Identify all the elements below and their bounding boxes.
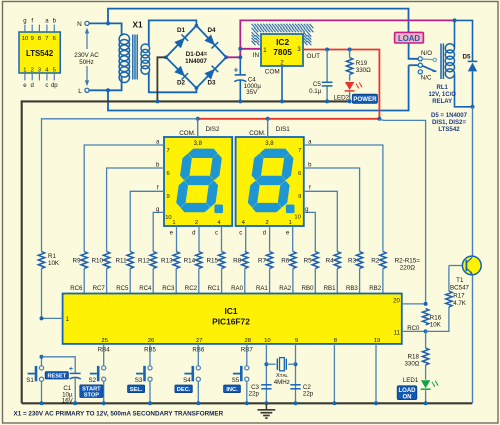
svg-text:D3: D3 bbox=[207, 79, 216, 86]
diode D4 bbox=[204, 35, 215, 46]
svg-text:R15: R15 bbox=[206, 258, 218, 265]
svg-text:L: L bbox=[78, 88, 82, 95]
svg-text:28: 28 bbox=[245, 338, 252, 344]
wire D5 to T1 collector bbox=[472, 107, 474, 256]
capacitor C5 bbox=[326, 50, 328, 82]
bridge rectifier frame bbox=[166, 26, 226, 88]
wire 5V output red bbox=[198, 50, 380, 119]
svg-text:R4: R4 bbox=[326, 258, 335, 265]
wire AC line L to relay pole bbox=[108, 65, 409, 110]
wire R14 to IC1 pin 13 (RC2) bbox=[198, 269, 200, 294]
wire R8 to IC1 pin 2 (RA0) bbox=[244, 269, 246, 294]
svg-text:7: 7 bbox=[167, 148, 170, 154]
svg-text:IN: IN bbox=[253, 52, 260, 59]
svg-text:RB2: RB2 bbox=[369, 285, 381, 292]
svg-text:RC3: RC3 bbox=[162, 285, 175, 292]
wire R5 to IC1 pin 21 (RB0) bbox=[314, 269, 316, 294]
diode D5 bbox=[468, 60, 478, 62]
resistor R8 220ohm bbox=[242, 252, 248, 269]
svg-text:RL1: RL1 bbox=[437, 85, 449, 91]
svg-text:22p: 22p bbox=[303, 391, 314, 398]
svg-text:DIS1: DIS1 bbox=[276, 126, 290, 133]
svg-text:RA2: RA2 bbox=[279, 285, 291, 292]
svg-text:SEL.: SEL. bbox=[130, 387, 143, 393]
wires DIS2 pins e d c to resistors bbox=[176, 226, 178, 252]
svg-text:dp: dp bbox=[51, 83, 58, 89]
svg-text:6: 6 bbox=[53, 36, 56, 42]
transformer X1 secondary winding bbox=[141, 44, 150, 53]
capacitor C1 10u bbox=[42, 357, 76, 373]
resistor R19 330ohm bbox=[349, 50, 351, 58]
svg-text:12V, 1C/O: 12V, 1C/O bbox=[428, 92, 456, 98]
IC1 pin 1 MCLR wire bbox=[42, 317, 63, 319]
switch S3 select bbox=[149, 365, 151, 367]
display DIS2 decimal point bbox=[214, 205, 223, 214]
display DIS2 digit 8 bbox=[176, 149, 223, 212]
svg-text:RB1: RB1 bbox=[324, 285, 336, 292]
wire R6 to IC1 pin 4 (RA2) bbox=[292, 269, 294, 294]
svg-text:1: 1 bbox=[172, 220, 175, 226]
wire R3 to IC1 pin 24 (RB3) bbox=[359, 269, 361, 294]
diode D2 bbox=[174, 66, 185, 77]
svg-text:2: 2 bbox=[195, 220, 198, 226]
wire 12V to IC2 input bbox=[240, 48, 261, 50]
svg-text:RB0: RB0 bbox=[302, 285, 314, 292]
svg-text:BC547: BC547 bbox=[450, 285, 469, 292]
relay contact N/O bbox=[418, 57, 422, 61]
svg-text:STOP: STOP bbox=[84, 393, 100, 399]
svg-text:S2: S2 bbox=[89, 377, 97, 384]
svg-text:R7: R7 bbox=[258, 258, 267, 265]
svg-text:INC.: INC. bbox=[226, 387, 238, 393]
svg-text:DEC.: DEC. bbox=[177, 387, 191, 393]
svg-text:RA1: RA1 bbox=[256, 285, 268, 292]
wire IC2 COM to ground bbox=[281, 66, 283, 101]
wire R9 to IC1 pin 17 (RC6) bbox=[83, 269, 85, 294]
svg-text:10: 10 bbox=[294, 215, 300, 221]
svg-text:4.7K: 4.7K bbox=[453, 300, 467, 307]
resistor R9 220ohm bbox=[81, 252, 87, 269]
label INC box bbox=[224, 385, 241, 393]
switch S4 decrement bbox=[197, 365, 199, 367]
svg-text:LOAD: LOAD bbox=[399, 388, 417, 394]
svg-text:T1: T1 bbox=[456, 277, 464, 284]
svg-text:RB3: RB3 bbox=[346, 285, 358, 292]
wire 12V to D5 cathode bbox=[455, 20, 473, 61]
svg-text:2: 2 bbox=[31, 67, 34, 73]
svg-text:LTS542: LTS542 bbox=[438, 126, 460, 133]
svg-text:10: 10 bbox=[22, 36, 28, 42]
transformer X1 core bbox=[132, 35, 134, 80]
switch S2 start/stop bbox=[103, 365, 105, 367]
svg-text:S5: S5 bbox=[232, 377, 240, 384]
svg-text:R13: R13 bbox=[161, 258, 173, 265]
svg-text:8: 8 bbox=[38, 36, 41, 42]
230V arrow bbox=[86, 32, 88, 50]
svg-text:7805: 7805 bbox=[273, 47, 292, 57]
svg-text:330Ω: 330Ω bbox=[404, 361, 419, 368]
wires DIS1 pins c d e to resistors bbox=[245, 226, 247, 252]
svg-text:LOAD: LOAD bbox=[398, 34, 420, 43]
diode D3 bbox=[204, 69, 215, 80]
svg-text:c: c bbox=[239, 231, 242, 237]
resistor R13 220ohm bbox=[173, 252, 179, 269]
terminal L bbox=[85, 88, 89, 92]
svg-text:S4: S4 bbox=[183, 377, 191, 384]
node 5V junctions bbox=[325, 48, 329, 52]
label POWER box bbox=[352, 94, 377, 103]
wire R11 to IC1 pin 16 (RC5) bbox=[129, 269, 131, 294]
LTS542 bottom pin leads 1 2 3 4 5 (e d c dp) bbox=[24, 73, 26, 80]
ground rail left side bbox=[21, 100, 23, 403]
diode D1 bbox=[174, 38, 185, 49]
regulator IC2 7805 bbox=[261, 34, 303, 66]
svg-text:RC4: RC4 bbox=[139, 285, 152, 292]
svg-text:DIS1, DIS2=: DIS1, DIS2= bbox=[432, 119, 466, 126]
wire R12 to IC1 pin 15 (RC4) bbox=[152, 269, 154, 294]
resistor R1 10K bbox=[38, 252, 44, 269]
transistor Q1 BC547 bbox=[449, 265, 462, 267]
label DEC box bbox=[175, 385, 192, 393]
svg-text:220Ω: 220Ω bbox=[400, 265, 416, 272]
svg-text:22p: 22p bbox=[249, 391, 260, 398]
svg-text:g: g bbox=[23, 19, 26, 25]
wire R10 to IC1 pin 18 (RC7) bbox=[106, 269, 108, 294]
relay contact N/C bbox=[418, 70, 422, 74]
svg-text:d: d bbox=[263, 231, 266, 237]
resistor R12 220ohm bbox=[150, 252, 156, 269]
svg-text:N/C: N/C bbox=[421, 75, 432, 82]
svg-text:LED1: LED1 bbox=[403, 377, 419, 384]
svg-text:7: 7 bbox=[45, 36, 48, 42]
wires DIS1 segment pins a b f g to resistors bbox=[304, 145, 383, 252]
label LOAD box bbox=[395, 32, 424, 43]
svg-text:POWER: POWER bbox=[353, 96, 377, 103]
svg-text:7: 7 bbox=[298, 148, 301, 154]
svg-text:230V AC: 230V AC bbox=[74, 52, 99, 59]
svg-text:S1: S1 bbox=[26, 377, 34, 384]
svg-text:D5 = 1N4007: D5 = 1N4007 bbox=[431, 112, 468, 119]
svg-text:RC6: RC6 bbox=[70, 285, 83, 292]
wire L to transformer primary bottom bbox=[89, 77, 121, 90]
resistor R14 220ohm bbox=[196, 252, 202, 269]
svg-text:N: N bbox=[77, 21, 82, 28]
svg-text:3,8: 3,8 bbox=[265, 141, 274, 147]
svg-text:10: 10 bbox=[264, 338, 271, 344]
svg-text:RC7: RC7 bbox=[93, 285, 106, 292]
svg-text:IC1: IC1 bbox=[224, 306, 237, 316]
svg-text:RA0: RA0 bbox=[231, 285, 243, 292]
resistor R10 220ohm bbox=[103, 252, 109, 269]
svg-text:19: 19 bbox=[374, 338, 381, 344]
IC U1 PIC16F72 body bbox=[63, 294, 402, 344]
svg-text:R5: R5 bbox=[304, 258, 313, 265]
resistor R18 330ohm bbox=[425, 331, 427, 348]
svg-text:X1 = 230V AC PRIMARY TO 12V, 5: X1 = 230V AC PRIMARY TO 12V, 500mA SECON… bbox=[14, 411, 224, 418]
svg-text:g: g bbox=[156, 207, 159, 213]
svg-text:10K: 10K bbox=[430, 322, 442, 329]
svg-text:5: 5 bbox=[53, 67, 56, 73]
resistor R16 10K bbox=[422, 309, 428, 325]
svg-text:16V: 16V bbox=[62, 397, 74, 404]
svg-text:1: 1 bbox=[289, 220, 292, 226]
svg-text:6: 6 bbox=[298, 171, 301, 177]
display DIS2 body bbox=[164, 137, 232, 226]
wire secondary top to bridge bbox=[149, 20, 197, 45]
svg-text:D1: D1 bbox=[177, 27, 186, 34]
terminal N bbox=[85, 21, 89, 25]
switch S1 reset bbox=[41, 365, 43, 367]
relay RL1 coil winding bbox=[445, 44, 454, 53]
svg-text:LTS542: LTS542 bbox=[26, 49, 54, 58]
svg-text:D5: D5 bbox=[462, 53, 471, 60]
svg-text:R2-R15=: R2-R15= bbox=[395, 258, 421, 265]
svg-text:RC5: RC5 bbox=[116, 285, 129, 292]
wire R2 to IC1 pin 23 (RB2) bbox=[382, 269, 384, 294]
node L junction bbox=[106, 88, 110, 92]
label RESET box bbox=[45, 372, 68, 379]
svg-text:3: 3 bbox=[38, 67, 41, 73]
resistor R3 220ohm bbox=[356, 252, 362, 269]
svg-text:6: 6 bbox=[167, 171, 170, 177]
display DIS1 body bbox=[236, 137, 304, 226]
node 12V junctions bbox=[238, 47, 242, 51]
IC LTS542 pinout box bbox=[19, 32, 60, 73]
label START STOP box bbox=[80, 385, 103, 398]
wire top rail N to LOAD bbox=[108, 9, 409, 33]
svg-text:N/O: N/O bbox=[421, 50, 432, 57]
svg-text:RC2: RC2 bbox=[185, 285, 198, 292]
ground symbol bbox=[265, 403, 267, 410]
wire bridge positive 12V magenta bbox=[226, 20, 454, 57]
wire R15 to IC1 pin 12 (RC1) bbox=[221, 269, 223, 294]
transformer X1 primary winding bbox=[119, 34, 129, 44]
svg-text:9: 9 bbox=[295, 338, 298, 344]
resistor R7 220ohm bbox=[266, 252, 272, 269]
svg-text:c: c bbox=[45, 83, 48, 89]
svg-text:R14: R14 bbox=[184, 258, 196, 265]
svg-text:RC0: RC0 bbox=[407, 325, 420, 332]
resistor R4 220ohm bbox=[334, 252, 340, 269]
svg-text:R12: R12 bbox=[138, 258, 150, 265]
resistor R5 220ohm bbox=[312, 252, 318, 269]
wire R13 to IC1 pin 14 (RC3) bbox=[175, 269, 177, 294]
relay pole arm bbox=[409, 64, 419, 66]
relay RL1 coil core bbox=[440, 44, 442, 80]
svg-text:RESET: RESET bbox=[47, 373, 66, 379]
crystal X2 4MHz bbox=[264, 362, 268, 366]
heatsink for IC2 bbox=[252, 24, 256, 28]
svg-text:RELAY: RELAY bbox=[432, 99, 452, 105]
svg-text:IC2: IC2 bbox=[276, 37, 289, 47]
display DIS1 decimal point bbox=[286, 205, 295, 214]
svg-text:X1: X1 bbox=[132, 20, 142, 29]
wire R4 to IC1 pin 22 (RB1) bbox=[336, 269, 338, 294]
resistor R15 220ohm bbox=[218, 252, 224, 269]
wire 5V to R1 and displays bbox=[42, 119, 198, 252]
svg-text:D2: D2 bbox=[177, 79, 186, 86]
svg-text:330Ω: 330Ω bbox=[356, 67, 371, 74]
svg-text:+: + bbox=[69, 364, 74, 373]
svg-text:3,8: 3,8 bbox=[194, 141, 203, 147]
svg-text:PIC16F72: PIC16F72 bbox=[212, 316, 250, 326]
svg-text:11: 11 bbox=[394, 331, 401, 337]
svg-text:RC1: RC1 bbox=[208, 285, 221, 292]
svg-text:20: 20 bbox=[393, 298, 400, 304]
resistor R6 220ohm bbox=[290, 252, 296, 269]
wire relay coil to transistor bbox=[455, 75, 473, 107]
svg-text:d: d bbox=[192, 231, 195, 237]
ground rail horizontal bbox=[22, 100, 350, 102]
svg-text:9: 9 bbox=[167, 194, 170, 200]
svg-text:2: 2 bbox=[265, 220, 268, 226]
svg-text:R6: R6 bbox=[281, 258, 290, 265]
svg-text:D4: D4 bbox=[207, 27, 216, 34]
resistor R11 220ohm bbox=[127, 252, 133, 269]
capacitor C4 bbox=[239, 57, 241, 74]
LED1 green bbox=[421, 380, 430, 388]
svg-text:R16: R16 bbox=[430, 314, 442, 321]
wire T1 emitter to ground bbox=[472, 275, 474, 403]
svg-text:R18: R18 bbox=[408, 353, 420, 360]
IC1 pin 20 VDD wire bbox=[402, 303, 426, 305]
svg-text:OUT: OUT bbox=[307, 53, 321, 60]
svg-text:35V: 35V bbox=[246, 89, 258, 96]
wire N to transformer primary top bbox=[89, 23, 121, 36]
svg-text:g: g bbox=[305, 207, 308, 213]
svg-text:R10: R10 bbox=[91, 258, 103, 265]
wire secondary bottom to bridge bbox=[149, 73, 197, 93]
svg-text:COM: COM bbox=[265, 68, 280, 75]
svg-text:R2: R2 bbox=[371, 258, 380, 265]
wire DIS1 COM bbox=[267, 119, 269, 137]
resistor R2 220ohm bbox=[380, 252, 386, 269]
svg-text:50Hz: 50Hz bbox=[79, 59, 93, 66]
svg-text:9: 9 bbox=[298, 194, 301, 200]
svg-text:10: 10 bbox=[165, 215, 171, 221]
wire DIS2 COM bbox=[197, 119, 199, 137]
wires DIS2 segment pins a b f g to resistors bbox=[84, 145, 164, 252]
svg-text:1: 1 bbox=[23, 67, 26, 73]
svg-text:COM.: COM. bbox=[179, 130, 196, 137]
svg-text:4MHz: 4MHz bbox=[274, 379, 290, 386]
svg-text:R17: R17 bbox=[453, 293, 465, 300]
svg-text:9: 9 bbox=[31, 36, 34, 42]
label LOAD ON box bbox=[397, 386, 417, 400]
svg-text:R3: R3 bbox=[348, 258, 357, 265]
svg-text:c: c bbox=[215, 231, 218, 237]
wire bridge negative to ground rail bbox=[157, 57, 166, 101]
svg-text:R11: R11 bbox=[116, 258, 128, 265]
ground rail bottom bbox=[22, 402, 473, 404]
svg-text:0.1µ: 0.1µ bbox=[309, 88, 322, 95]
IC1 pin 11 RC0 wire bbox=[402, 330, 426, 332]
svg-text:ON: ON bbox=[403, 395, 412, 401]
svg-text:R9: R9 bbox=[73, 258, 82, 265]
svg-text:1N4007: 1N4007 bbox=[185, 58, 207, 65]
svg-text:R8: R8 bbox=[233, 258, 242, 265]
svg-text:27: 27 bbox=[196, 338, 203, 344]
label SEL box bbox=[128, 385, 145, 393]
LED2 red bbox=[345, 82, 354, 90]
svg-text:25: 25 bbox=[101, 338, 108, 344]
LTS542 top pin leads 10 9 8 7 6 (g f a b) bbox=[24, 25, 26, 32]
svg-text:DIS2: DIS2 bbox=[206, 126, 220, 133]
wire LOAD to relay NO bbox=[409, 43, 418, 59]
capacitor C2 22p bbox=[290, 384, 300, 386]
svg-text:COM.: COM. bbox=[249, 130, 266, 137]
wire 12V to relay coil bbox=[454, 20, 456, 47]
svg-text:S3: S3 bbox=[135, 377, 143, 384]
svg-text:26: 26 bbox=[148, 338, 155, 344]
svg-text:+: + bbox=[234, 66, 239, 75]
switch S5 increment bbox=[246, 365, 248, 367]
capacitor C3 22p bbox=[261, 384, 271, 386]
resistor R17 4.7K bbox=[426, 307, 449, 331]
node N junction bbox=[106, 21, 110, 25]
display DIS1 digit 8 bbox=[247, 149, 294, 212]
svg-text:10K: 10K bbox=[48, 260, 60, 267]
svg-text:d: d bbox=[31, 83, 34, 89]
svg-text:LED2: LED2 bbox=[334, 94, 350, 101]
wire R7 to IC1 pin 3 (RA1) bbox=[269, 269, 271, 294]
wire 5V to pin20 VDD bbox=[379, 120, 425, 304]
